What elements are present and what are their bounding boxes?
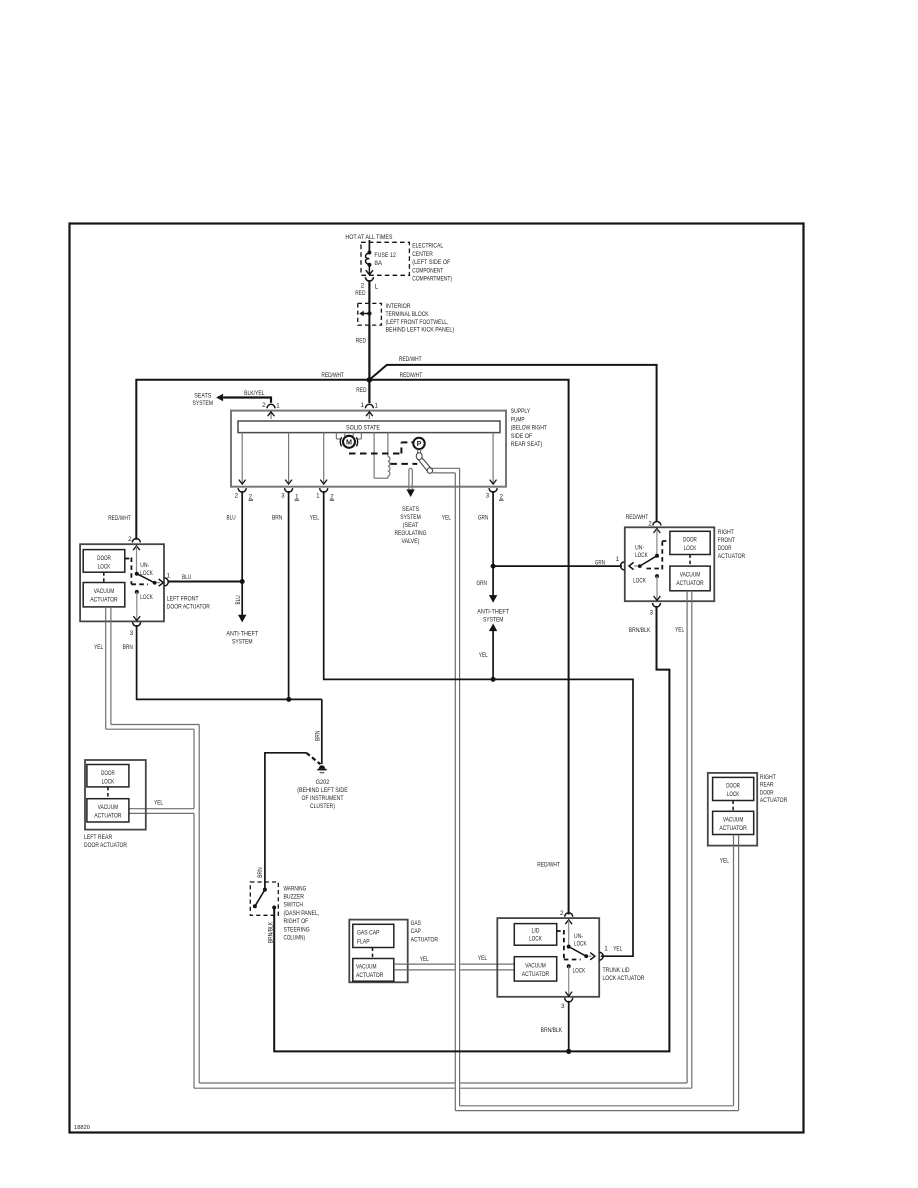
node YEL junction anti-theft [491,677,496,682]
diagram border frame [70,224,804,1133]
svg-text:SUPPLY: SUPPLY [511,408,531,415]
interior terminal block dashed box [358,303,382,325]
LF unlock contact [135,572,139,576]
svg-text:GAS: GAS [411,920,421,927]
svg-text:SWITCH: SWITCH [284,902,304,909]
wire BRN LF pin3 to ground junction [137,625,322,699]
svg-text:1: 1 [316,493,320,500]
wire RED terminal block to junction [368,325,370,380]
right rear door actuator box [708,773,757,846]
svg-text:REAR SEAT): REAR SEAT) [511,441,543,448]
linkage RR [732,801,734,812]
motor M inside supply pump [335,433,337,439]
hose RF manifold horizontal to left [199,1082,455,1084]
svg-text:DOOR: DOOR [101,770,115,777]
svg-text:ANTI-THEFT: ANTI-THEFT [226,630,258,637]
svg-text:GRN: GRN [595,559,606,566]
gas cap flap box [353,924,394,947]
hose YEL from pump lever [432,467,460,469]
connector trunk pin 2 [565,913,573,917]
supply pump internal wire to pin GRN [492,433,494,484]
svg-text:DOOR: DOOR [760,789,774,796]
supply pump internal wire to pin BRN [288,433,290,484]
svg-text:SOLID STATE: SOLID STATE [346,424,380,431]
svg-text:2: 2 [235,493,239,500]
arrow to SEATS SYSTEM [216,394,223,402]
svg-text:BRN: BRN [272,514,283,521]
underline [249,499,254,501]
hose vertical run left (to bottom manifold) [198,725,200,1084]
svg-text:BLK/YEL: BLK/YEL [244,390,265,397]
svg-text:LOCK: LOCK [98,564,111,571]
door lock switch box LF [83,550,125,573]
gas cap actuator box [349,920,407,983]
svg-text:VACUUM: VACUUM [356,963,377,970]
svg-text:2: 2 [648,521,652,528]
svg-text:BRN: BRN [315,730,322,741]
linkage LR [107,787,109,799]
svg-text:1: 1 [167,572,171,579]
wire RED fuse to terminal block [368,280,370,303]
wire BRN/BLK buzzer to bottom run [274,908,569,1052]
svg-text:YEL: YEL [720,857,729,864]
svg-text:ACTUATOR: ACTUATOR [760,797,788,804]
pump P inside supply pump [413,438,424,449]
svg-text:LEFT REAR: LEFT REAR [84,834,113,841]
wire RED/WHT to trunk lid actuator (lower) [369,380,568,915]
svg-text:3: 3 [561,1003,565,1010]
wire RED/WHT to right front door (upper) [369,365,656,522]
wire GRN branch to anti-theft [492,566,494,595]
svg-text:(BEHIND LEFT SIDE: (BEHIND LEFT SIDE [297,787,348,794]
svg-text:CENTER: CENTER [412,251,433,258]
warning buzzer switch dashed box [250,882,278,915]
svg-text:(LEFT SIDE OF: (LEFT SIDE OF [412,259,450,266]
svg-text:SYSTEM: SYSTEM [193,400,214,407]
lid lock box [514,924,556,946]
svg-text:L: L [375,284,379,291]
linkage dashes trunk [557,930,564,932]
buzzer switch arm [255,890,265,907]
tap arrow [359,311,364,316]
svg-text:DOOR ACTUATOR: DOOR ACTUATOR [84,842,127,849]
svg-text:G202: G202 [316,779,330,786]
svg-text:2: 2 [262,402,266,409]
hose YEL from RR vacuum actuator [733,835,735,1106]
svg-text:COMPONENT: COMPONENT [412,267,443,274]
svg-text:ACTUATOR: ACTUATOR [356,972,384,979]
wire BRN/BLK trunk pin 3 down [568,1001,570,1052]
ground G202 [319,765,325,769]
svg-text:1: 1 [604,946,608,953]
wire GRN pump to right front door pin 1 [492,491,494,566]
svg-text:1: 1 [276,403,280,410]
RF unlock contact [655,554,659,558]
svg-text:LID: LID [532,928,540,935]
svg-text:WARNING: WARNING [284,885,307,892]
svg-text:ELECTRICAL: ELECTRICAL [412,243,443,250]
door lock box LR [87,765,129,787]
svg-text:3: 3 [486,493,490,500]
svg-text:LEFT FRONT: LEFT FRONT [167,595,199,602]
supply pump internal wire to pin BLU [241,433,243,484]
svg-text:LOCK ACTUATOR: LOCK ACTUATOR [603,975,645,982]
svg-text:RED/WHT: RED/WHT [321,372,344,379]
wire through terminal block [368,303,370,325]
wire BRN junction to G202 [321,699,323,764]
svg-text:DOOR: DOOR [683,537,697,544]
svg-text:CAP: CAP [411,928,421,935]
connector LF pin 2 [132,539,140,543]
svg-text:1: 1 [375,403,379,410]
connector pump pin 3 GRN [489,488,497,492]
vacuum actuator box LR [87,799,129,822]
LF switch arm [137,574,155,583]
svg-text:(DASH PANEL,: (DASH PANEL, [284,910,320,917]
svg-text:M: M [346,438,352,447]
svg-text:1: 1 [295,494,299,501]
svg-text:2: 2 [361,283,365,290]
trunk lock contact [567,964,571,968]
arrow GRN to anti-theft system [489,595,497,603]
svg-text:DOOR ACTUATOR: DOOR ACTUATOR [167,603,210,610]
svg-text:INTERIOR: INTERIOR [386,303,411,310]
node RED/WHT junction J1 [367,377,373,383]
node BRN/BLK junction bottom [566,1049,571,1054]
tap stub [363,313,370,315]
supply pump box [231,411,506,487]
svg-text:3: 3 [649,610,653,617]
trunk lid lock actuator box [497,918,599,997]
left rear door actuator box [85,760,146,830]
svg-text:LOCK: LOCK [529,936,542,943]
wire RED/WHT to left front door [136,380,369,540]
svg-text:2: 2 [128,536,132,543]
LF switch [133,546,140,550]
svg-text:DOOR: DOOR [726,783,740,790]
svg-text:GRN: GRN [478,514,489,521]
svg-text:YEL: YEL [420,956,429,963]
svg-text:BRN: BRN [257,867,264,878]
svg-text:VACUUM: VACUUM [680,572,701,579]
svg-text:RED: RED [356,338,367,345]
svg-text:2: 2 [560,910,564,917]
wire BLK/YEL [223,398,271,403]
svg-text:BUZZER: BUZZER [284,894,305,901]
door lock box RR [713,777,754,800]
svg-text:BLU: BLU [235,595,242,604]
svg-text:FUSE 12: FUSE 12 [374,252,396,259]
svg-text:LOCK: LOCK [573,967,586,974]
pin arrows inside supply pump top [270,412,272,420]
svg-text:SYSTEM: SYSTEM [232,638,253,645]
svg-text:LOCK: LOCK [140,594,153,601]
svg-text:3: 3 [130,630,134,637]
svg-text:STEERING: STEERING [284,926,310,933]
svg-text:PUMP: PUMP [511,416,525,423]
svg-text:ANTI-THEFT: ANTI-THEFT [477,609,509,616]
linkage door lock to vacuum actuator LF [103,572,105,582]
RF switch arm [640,556,657,566]
svg-text:BRN/BLK: BRN/BLK [267,921,274,943]
svg-text:YEL: YEL [478,955,487,962]
svg-text:BRN/BLK: BRN/BLK [541,1027,563,1034]
svg-text:8A: 8A [374,260,383,267]
arrow to pin 1 [159,579,164,586]
node BRN junction [286,697,291,702]
connector trunk pin 3 [565,998,573,1002]
arrow to SEATS SYSTEM valve [406,489,414,497]
node BLU junction [240,579,245,584]
junction in terminal block [367,311,371,315]
svg-text:RIGHT: RIGHT [718,529,734,536]
svg-text:SEATS: SEATS [402,506,419,513]
pump lever rod [418,457,432,471]
diagonal to ground [306,753,320,765]
buzzer switch contact top [263,888,267,892]
connector supply pump pin 1 (top) [365,404,373,408]
svg-text:ACTUATOR: ACTUATOR [411,936,439,943]
arrow BLU to anti-theft system [238,615,246,623]
svg-text:LOCK: LOCK [684,545,697,552]
svg-text:YEL: YEL [94,644,103,651]
svg-text:LOCK: LOCK [635,552,648,559]
electrical center dashed box [361,242,409,275]
svg-text:ACTUATOR: ACTUATOR [719,825,747,832]
svg-text:LOCK: LOCK [102,778,115,785]
connector RF pin 2 [653,522,661,526]
svg-text:BRN: BRN [123,644,134,651]
svg-text:(SEAT: (SEAT [403,522,419,529]
svg-text:ACTUATOR: ACTUATOR [676,580,704,587]
connector trunk pin 1 [599,952,603,960]
svg-text:1: 1 [616,556,620,563]
svg-text:SEATS: SEATS [194,392,211,399]
svg-text:REAR: REAR [760,782,774,789]
svg-text:OF INSTRUMENT: OF INSTRUMENT [302,795,344,802]
linkage dashes LF [125,558,132,560]
svg-text:RIGHT: RIGHT [760,774,776,781]
hose YEL from RF vacuum actuator [686,591,688,1083]
hose YEL gas cap to trunk vacuum actuator [394,963,455,965]
seats-system port cylinder [408,470,410,489]
right front door actuator box [625,527,715,601]
svg-text:RIGHT OF: RIGHT OF [284,918,309,925]
connector pump pin 1 YEL [320,488,328,492]
left front door actuator box [80,544,164,621]
buzzer switch contact out [272,906,276,910]
hose YEL from LR vacuum actuator [129,808,194,810]
wire BRN pump to ground junction [288,491,290,699]
svg-text:RED/WHT: RED/WHT [537,862,560,869]
wire YEL pump pin 1 to trunk lid actuator pin 1 [324,491,633,956]
supply pump internal wire to pin YEL [323,433,325,484]
connector LF pin 3 [133,622,141,626]
svg-text:LOCK: LOCK [633,578,646,585]
svg-text:FLAP: FLAP [357,938,370,945]
vacuum actuator box LF [83,583,125,607]
svg-text:1: 1 [360,402,364,409]
svg-text:UN-: UN- [635,545,644,552]
svg-text:RED: RED [355,290,366,297]
svg-text:COMPARTMENT): COMPARTMENT) [412,276,452,283]
svg-text:BEHIND LEFT KICK PANEL): BEHIND LEFT KICK PANEL) [386,327,455,334]
svg-text:VACUUM: VACUUM [98,804,119,811]
connector pump pin 3 BRN [285,488,293,492]
vacuum actuator box RR [713,811,754,834]
pump winding / coil [373,433,375,479]
svg-text:YEL: YEL [675,627,684,634]
svg-text:HOT AT ALL TIMES: HOT AT ALL TIMES [345,234,392,241]
connector RF pin 3 [653,603,661,607]
connector pump pin 2 BLU [238,488,246,492]
connector RF pin 1 [621,562,625,570]
wire BLU branch to anti-theft [241,582,243,616]
svg-text:VALVE): VALVE) [401,538,419,545]
svg-text:ACTUATOR: ACTUATOR [522,971,550,978]
wire RED junction to supply pump pin 1 [368,380,370,403]
svg-text:UN-: UN- [574,933,583,940]
connector LF pin 1 [164,578,168,586]
mechanical linkage dashes motor-coil-pump [349,453,401,455]
RF lock contact [655,574,659,578]
svg-text:DOOR: DOOR [97,555,111,562]
svg-text:2: 2 [500,494,504,501]
svg-text:UN-: UN- [140,562,149,569]
svg-text:BLU: BLU [227,514,236,521]
svg-text:TERMINAL BLOCK: TERMINAL BLOCK [386,311,430,318]
svg-text:RED/WHT: RED/WHT [399,356,422,363]
wire BRN buzzer switch to G202 [265,753,306,890]
svg-text:YEL: YEL [479,652,488,659]
svg-text:SYSTEM: SYSTEM [400,514,421,521]
svg-text:18820: 18820 [74,1125,90,1131]
svg-text:3: 3 [281,493,285,500]
trunk switch arm [569,947,587,957]
svg-text:RED/WHT: RED/WHT [108,515,131,522]
svg-text:VACUUM: VACUUM [723,817,744,824]
svg-text:BLU: BLU [182,574,191,581]
svg-text:LOCK: LOCK [574,941,587,948]
vacuum actuator box trunk [514,957,556,981]
linkage dashes RF [647,568,663,570]
svg-text:FRONT: FRONT [718,537,735,544]
svg-text:P: P [417,439,422,448]
svg-text:REGULATING: REGULATING [395,530,427,537]
svg-text:(LEFT FRONT FOOTWELL,: (LEFT FRONT FOOTWELL, [386,319,449,326]
svg-text:ACTUATOR: ACTUATOR [94,813,122,820]
connector supply pump pin 2 (top) [267,404,275,408]
svg-text:COLUMN): COLUMN) [284,935,306,942]
linkage gas cap [372,948,374,959]
wire BRN/BLK bottom run to right front door [569,606,670,1052]
svg-text:CLUSTER): CLUSTER) [310,803,335,810]
svg-text:RED: RED [356,387,367,394]
vacuum actuator box gas cap [353,959,394,982]
svg-text:YEL: YEL [442,514,451,521]
svg-text:LOCK: LOCK [727,791,740,798]
vacuum actuator box RF [670,566,710,591]
solid state module bar [238,421,500,433]
hose RR bottom run joins pump hose [460,1105,734,1107]
svg-text:(BELOW RIGHT: (BELOW RIGHT [511,425,547,432]
svg-text:SIDE OF: SIDE OF [511,433,533,440]
svg-text:GRN: GRN [477,580,488,587]
svg-text:TRUNK LID: TRUNK LID [603,967,630,974]
hose YEL from LF vacuum actuator [105,607,107,729]
svg-text:RED/WHT: RED/WHT [400,372,423,379]
svg-text:SYSTEM: SYSTEM [483,617,504,624]
svg-text:RED/WHT: RED/WHT [626,514,649,521]
svg-text:VACUUM: VACUUM [525,963,546,970]
arrow YEL from anti-theft system [489,624,497,632]
node GRN junction [491,564,496,569]
LF lock contact [135,590,139,594]
svg-text:YEL: YEL [154,800,163,807]
svg-text:2: 2 [249,494,253,501]
fuse F12 8A [368,240,370,253]
hose YEL pump vertical run [454,473,456,1111]
svg-text:VACUUM: VACUUM [94,588,115,595]
wire BLU pump to left front door pin 1 [241,491,243,582]
svg-text:GAS CAP: GAS CAP [357,930,380,937]
svg-text:2: 2 [330,494,334,501]
connector pin 2 below fuse box [365,277,373,281]
svg-text:YEL: YEL [613,946,622,953]
svg-text:BRN/BLK: BRN/BLK [629,627,651,634]
door lock box RF [670,531,710,554]
svg-text:DOOR: DOOR [718,545,732,552]
svg-text:ACTUATOR: ACTUATOR [90,597,118,604]
linkage RF [689,555,691,567]
svg-text:ACTUATOR: ACTUATOR [718,553,746,560]
trunk unlock contact [567,945,571,949]
hose LF turn to right [111,724,199,726]
svg-text:YEL: YEL [310,514,319,521]
